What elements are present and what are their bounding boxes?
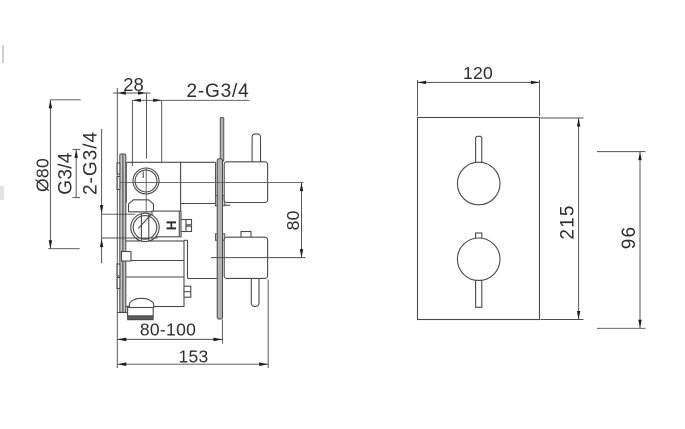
svg-text:96: 96	[619, 226, 640, 250]
wall plate tabs	[117, 163, 120, 289]
neck between ports	[129, 200, 154, 212]
dimension Ø80	[33, 100, 81, 249]
top handle (side)	[224, 134, 267, 205]
body top block	[126, 162, 215, 211]
bottom port circle	[131, 213, 159, 241]
side stub on lower block	[122, 252, 132, 262]
dimension 215	[541, 118, 584, 320]
label 2-G3/4 top with leader	[132, 81, 249, 166]
svg-text:2-G3/4: 2-G3/4	[81, 131, 102, 195]
dimension 120	[418, 63, 540, 116]
svg-text:G3/4: G3/4	[56, 152, 77, 195]
dimension 28	[113, 74, 151, 159]
label G3/4 with leader	[56, 149, 81, 197]
bottom handle (side)	[224, 232, 267, 307]
svg-text:80-100: 80-100	[140, 320, 196, 340]
cartridge middle block	[152, 211, 192, 237]
svg-text:120: 120	[463, 63, 493, 83]
wall plate	[118, 154, 128, 313]
svg-text:Ø80: Ø80	[33, 158, 53, 192]
rear block lines behind escutcheon	[184, 240, 217, 278]
upper knob	[457, 136, 500, 204]
inlet elbow dome	[128, 298, 154, 319]
svg-text:153: 153	[178, 346, 208, 366]
top port circle	[133, 168, 159, 211]
svg-text:80: 80	[283, 210, 303, 230]
label 2-G3/4 left with leader	[81, 129, 158, 263]
svg-text:H: H	[163, 221, 178, 231]
svg-text:2-G3/4: 2-G3/4	[187, 81, 250, 102]
lower knob	[457, 233, 500, 307]
escutcheon plate (side)	[215, 117, 224, 319]
scan artifacts	[2, 45, 4, 63]
extension line wall face	[116, 88, 118, 368]
lower body block	[125, 241, 191, 307]
front trim plate	[418, 118, 540, 320]
dimension 153	[117, 280, 268, 369]
dimension 80-100	[117, 320, 222, 344]
dimension 80 (handle spacing)	[211, 183, 306, 258]
dimension 96	[597, 152, 646, 329]
centerline through top handle	[120, 182, 304, 184]
svg-text:215: 215	[558, 204, 579, 239]
